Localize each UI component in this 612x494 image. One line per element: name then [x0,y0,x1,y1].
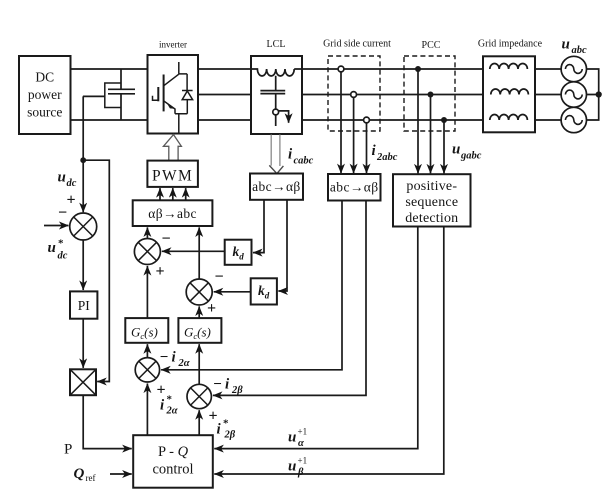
svg-text:−: − [161,231,170,248]
AC source Vb [561,82,586,107]
label Qref [74,466,96,483]
converter abc-ab 1 box [250,174,303,200]
inductor L1 in LCL [252,69,302,76]
arrow icabc LCL down [269,135,283,174]
wire below sensor [275,115,277,126]
svg-text:−: − [58,205,67,222]
svg-text:+: + [156,382,165,399]
converter ab-abc box [133,200,213,226]
svg-text:PWM: PWM [152,168,193,185]
summer J4 alpha current [135,358,159,382]
svg-text:PI: PI [78,298,91,313]
svg-text:P - Q: P - Q [158,444,189,460]
svg-text:Q: Q [74,466,85,482]
label ubeta+1 [288,456,307,479]
label i_2abc [372,143,398,163]
wire G2 to J3 [198,306,200,318]
inverter box [148,55,199,134]
label icabc [288,147,314,167]
wire multiplier to PQ (P) [83,395,132,448]
capacitor C dc-link [105,69,135,120]
svg-text:u: u [452,142,460,158]
wire ualpha+1 to PQ [214,227,417,449]
wire abc-ab1 to kd2 [278,200,287,291]
inductor Lg b [491,89,529,95]
LCL filter box [251,56,302,134]
kd box 1 [225,240,252,265]
svg-text:+1: +1 [298,456,308,466]
wire G1 to J2 [146,266,148,318]
svg-text:DC: DC [35,70,54,85]
wire i2a down [340,72,342,173]
summer J5 beta current [187,384,211,408]
multiplier box [70,369,96,395]
svg-text:+: + [66,192,75,209]
P-Q control box [133,435,213,488]
wire phase b LCL-gridZ [302,94,483,96]
svg-text:*: * [167,394,173,406]
wire PQ to J5 [198,410,200,435]
wire udc ref input [44,225,69,227]
wire sensor hook arrow [279,111,289,123]
wire kd2 to J3 [214,291,251,293]
svg-text:2β: 2β [224,430,236,441]
wire phase c LCL-gridZ [302,119,483,121]
wire kd1 to J2 [162,250,225,252]
wire phase b gridZ-source [535,94,561,96]
capacitor Cf in LCL [260,76,285,109]
summer J2 alpha [134,239,160,265]
wire J3 to ab-abc [198,227,200,279]
svg-text:abc→αβ: abc→αβ [330,180,379,195]
wire PI to multiplier [82,319,84,368]
positive-sequence detection box [393,174,471,226]
node tap a [338,66,344,72]
wire ubeta+1 to PQ [214,227,443,475]
svg-text:−: − [214,269,223,286]
svg-text:dc: dc [58,251,68,262]
label i2alpha ref [160,394,178,417]
svg-text:ref: ref [86,473,96,483]
arrow PWM to inverter [163,135,181,161]
diode D1 [182,74,193,114]
inductor Lg a [490,63,528,69]
wire dc bus bottom [71,119,148,121]
label ualpha+1 [288,427,307,450]
Gc(s) box 1 [125,318,168,343]
PWM box [147,161,198,187]
label P-Q control [152,444,193,478]
svg-text:2α: 2α [166,406,178,417]
wire i2alpha feedback [161,201,342,370]
node bus dot [596,91,602,97]
wire ug c down [443,120,445,173]
AC source Va [561,56,586,81]
transistor Q1 IGBT [153,62,188,134]
wire abc-ab1 to kd1 [253,200,264,253]
wire PQ to J4 [146,384,148,436]
node udc branch dot [80,157,86,163]
wire J5 to G2 [198,344,200,384]
svg-text:*: * [58,238,64,250]
svg-text:inverter: inverter [159,40,187,50]
svg-text:Gc(s): Gc(s) [131,325,158,342]
summer J3 beta [186,279,212,305]
svg-text:2abc: 2abc [376,152,398,163]
wire J1 to PI [82,240,84,290]
svg-text:+1: +1 [298,427,308,437]
svg-text:source: source [27,105,62,120]
svg-text:abc→αβ: abc→αβ [252,179,301,194]
svg-text:2α: 2α [178,358,190,369]
current sensor node in LCL [273,109,279,115]
node PCC a [415,66,421,72]
inductor Lg c [490,114,528,120]
label udc [58,170,77,190]
label minus i2beta [213,377,243,397]
svg-text:*: * [223,418,229,430]
svg-text:−: − [160,350,169,366]
svg-text:positive-: positive- [406,179,457,194]
svg-text:2β: 2β [231,385,243,396]
wire i2c down [366,123,368,173]
svg-text:control: control [152,462,193,478]
AC source Vc [561,107,586,132]
wire udc tap [83,95,105,97]
svg-text:u: u [58,170,66,186]
node tap b [351,92,357,98]
wire Qref to PQ [110,473,132,475]
svg-text:−: − [213,377,222,393]
node PCC b [428,92,434,98]
svg-text:PCC: PCC [422,40,441,51]
svg-text:detection: detection [405,211,458,226]
wire phase b inverter-LCL [198,94,251,96]
svg-text:sequence: sequence [405,195,458,210]
DC power source box [19,56,71,134]
label positive-sequence detection [405,179,458,226]
wire phase c gridZ-source [535,119,561,121]
wire i2b down [353,97,355,173]
wire phase a gridZ-source [535,68,561,70]
grid impedance box [483,56,535,132]
svg-text:+: + [207,300,216,317]
svg-text:α: α [298,438,304,449]
svg-text:Gc(s): Gc(s) [184,325,211,342]
node PCC c [441,117,447,123]
svg-text:LCL: LCL [267,39,286,50]
summer J1 udc [70,213,97,240]
svg-text:u: u [562,37,570,53]
wire phase arrows ab-abc to PWM [159,188,161,200]
Gc(s) box 2 [178,318,221,343]
label u_abc [562,37,588,57]
node tap c [364,117,370,123]
svg-text:abc: abc [572,45,588,56]
PCC dashed box [404,56,455,131]
svg-text:αβ→abc: αβ→abc [148,206,197,221]
converter abc-ab 2 box [328,174,381,201]
svg-text:cabc: cabc [294,156,314,167]
label udc ref [48,238,68,262]
wire source bus right [587,69,599,120]
wire udc sense down to summer [82,96,84,212]
PI box [70,291,97,318]
wire J4 to G1 [146,344,148,357]
svg-text:u: u [288,459,296,475]
wire J2 to ab-abc [146,227,148,238]
wire dc bus top [71,68,148,70]
svg-text:dc: dc [67,178,77,189]
svg-text:+: + [155,263,164,280]
wire phase a inverter-LCL [198,68,251,70]
svg-text:u: u [48,240,56,256]
wire ug b down [430,95,432,174]
wire udc branch to multiplier [83,160,109,381]
svg-text:Grid side current: Grid side current [323,39,391,50]
label DC power source [27,70,62,120]
wire ug a down [417,69,419,173]
svg-text:power: power [28,87,62,102]
wire phase c inverter-LCL [198,119,251,121]
grid side current dashed box [328,56,380,131]
svg-text:P: P [64,442,72,458]
svg-text:gabc: gabc [460,151,482,162]
wire phase a LCL-gridZ [302,68,483,70]
wire i2beta feedback [213,201,366,396]
label u_gabc [452,142,482,162]
label minus i2alpha [160,350,190,370]
svg-text:Grid impedance: Grid impedance [478,39,543,50]
kd box 2 [251,278,277,304]
svg-text:u: u [288,430,296,446]
svg-text:β: β [297,467,304,478]
label i2beta ref [217,418,236,441]
